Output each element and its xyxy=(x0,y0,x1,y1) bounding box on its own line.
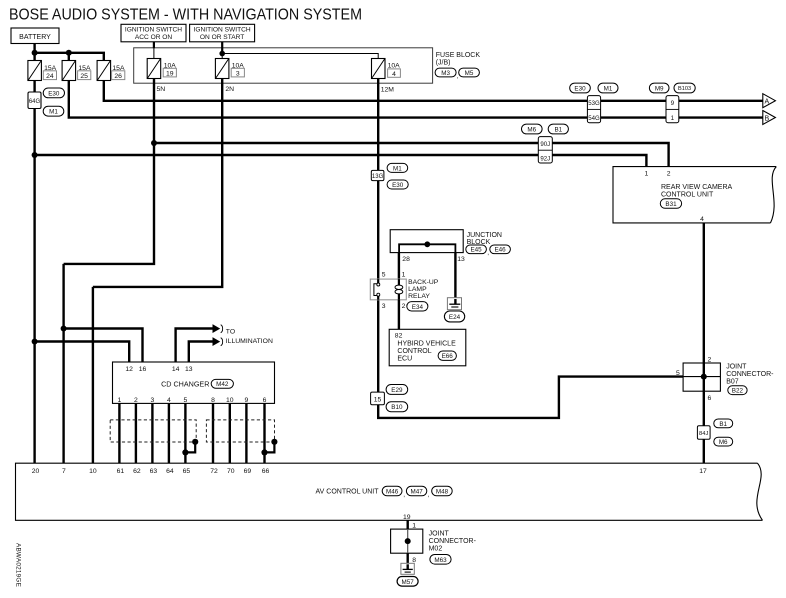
pin 2 B07 xyxy=(708,357,712,364)
wire feed to fuse4 xyxy=(222,54,378,59)
av control unit box xyxy=(16,463,763,520)
svg-text:CONTROL: CONTROL xyxy=(397,348,431,355)
svg-text:2N: 2N xyxy=(225,86,234,93)
svg-text:25: 25 xyxy=(80,73,88,80)
label E45 oval xyxy=(466,245,490,257)
shield drain right xyxy=(261,439,277,456)
connector label 5N xyxy=(157,86,166,93)
svg-text:63: 63 xyxy=(150,468,158,475)
pin 19 av unit xyxy=(403,514,411,521)
shield box left xyxy=(110,420,196,442)
svg-text:53G: 53G xyxy=(588,100,600,107)
wire 2N down xyxy=(93,79,222,464)
svg-text:13: 13 xyxy=(457,256,465,263)
svg-text:12M: 12M xyxy=(381,87,395,94)
label M1 oval left xyxy=(43,106,64,116)
svg-text:69: 69 xyxy=(244,468,252,475)
svg-text:5N: 5N xyxy=(157,86,166,93)
node branch pin16 xyxy=(61,326,67,332)
svg-text:JOINT: JOINT xyxy=(429,531,450,538)
pin 8 M02 xyxy=(412,557,416,564)
svg-text:62: 62 xyxy=(133,468,141,475)
svg-text:AV CONTROL UNIT: AV CONTROL UNIT xyxy=(316,489,380,496)
svg-text:5: 5 xyxy=(382,272,386,279)
svg-text:M63: M63 xyxy=(434,557,447,564)
fuse 26 15A xyxy=(97,61,125,81)
svg-text:,: , xyxy=(428,491,430,498)
svg-text:B10: B10 xyxy=(391,404,403,411)
joint connector M02 xyxy=(391,529,477,553)
svg-text:2: 2 xyxy=(708,357,712,364)
svg-text:LAMP: LAMP xyxy=(408,286,427,293)
svg-text:12: 12 xyxy=(125,366,133,373)
svg-text:16: 16 xyxy=(139,366,147,373)
svg-text:3: 3 xyxy=(151,397,155,404)
label B1 oval 84J xyxy=(714,419,733,428)
pin 1 M02 xyxy=(412,522,416,529)
junction block box xyxy=(390,230,502,253)
svg-text:B07: B07 xyxy=(726,379,739,386)
svg-text:CONTROL UNIT: CONTROL UNIT xyxy=(661,192,714,199)
svg-text:2: 2 xyxy=(667,171,671,178)
label M1 oval 53G xyxy=(598,83,618,93)
svg-text:28: 28 xyxy=(402,256,410,263)
svg-text:6: 6 xyxy=(263,397,267,404)
svg-text:10: 10 xyxy=(89,468,97,475)
svg-text:B1: B1 xyxy=(554,126,562,133)
label E46 oval xyxy=(490,245,511,254)
connector 9 1 xyxy=(666,96,679,123)
wire CD pin13 to illumination xyxy=(189,342,214,363)
svg-text:M48: M48 xyxy=(436,489,449,496)
label M1 oval 13G xyxy=(387,163,408,172)
svg-text:92J: 92J xyxy=(540,156,550,163)
wires cd changer to av unit xyxy=(119,403,264,463)
pin 14 cd xyxy=(172,366,180,373)
fuse block label xyxy=(435,52,480,80)
svg-text:REAR VIEW CAMERA: REAR VIEW CAMERA xyxy=(661,184,733,191)
arrow illumination 1 xyxy=(213,325,220,332)
av unit pin labels xyxy=(32,468,707,475)
pin 1 camera xyxy=(645,171,649,178)
svg-text:M57: M57 xyxy=(401,579,414,586)
connector label 2N xyxy=(225,86,234,93)
svg-text:E46: E46 xyxy=(494,247,506,254)
svg-text:M1: M1 xyxy=(49,109,58,116)
svg-text:4: 4 xyxy=(700,216,704,223)
fuse block J/B outline xyxy=(134,48,433,83)
svg-text:54G: 54G xyxy=(588,115,600,122)
title xyxy=(9,7,362,24)
label B22 oval xyxy=(728,386,747,395)
pin 28 junction block xyxy=(402,256,410,263)
svg-text:HYBIRD VEHICLE: HYBIRD VEHICLE xyxy=(397,341,456,348)
wire fuse25 stub xyxy=(68,53,70,61)
wire battery feed xyxy=(33,44,35,464)
svg-text:1: 1 xyxy=(118,397,122,404)
joint connector B07 xyxy=(683,363,774,391)
svg-text:1: 1 xyxy=(412,522,416,529)
svg-text:E24: E24 xyxy=(449,314,461,321)
fuse 25 15A xyxy=(62,61,91,81)
svg-text:2: 2 xyxy=(402,303,406,310)
svg-text:19: 19 xyxy=(403,514,411,521)
wire battery bus xyxy=(35,53,104,61)
svg-text:E30: E30 xyxy=(574,85,586,92)
label E30 oval 53G xyxy=(570,83,591,93)
svg-text:26: 26 xyxy=(114,73,122,80)
pin 2 relay xyxy=(402,303,406,310)
svg-text:M47: M47 xyxy=(410,489,423,496)
pin 3 relay xyxy=(382,303,386,310)
connector 13G xyxy=(371,170,384,180)
wire ACC to fuse19 xyxy=(153,42,155,59)
wire relay pin3 to B07 pin5 xyxy=(378,300,683,418)
svg-text:1: 1 xyxy=(645,171,649,178)
fuse 24 15A xyxy=(28,61,57,81)
node fuse3 feed dot xyxy=(219,51,225,57)
connector 84J xyxy=(697,426,710,440)
label M63 oval xyxy=(430,555,451,565)
svg-text:1: 1 xyxy=(671,115,675,122)
node battery bus dot2 xyxy=(66,50,72,56)
svg-text:13: 13 xyxy=(185,366,193,373)
svg-text:M6: M6 xyxy=(719,439,728,446)
svg-text:RELAY: RELAY xyxy=(408,293,430,300)
wire M02 to ground M57 xyxy=(407,553,409,569)
wire fuse26 to arrow A xyxy=(104,81,763,101)
svg-text:BACK-UP: BACK-UP xyxy=(408,279,439,286)
svg-text:8: 8 xyxy=(211,397,215,404)
cd changer box xyxy=(113,362,275,403)
svg-text:ILLUMINATION: ILLUMINATION xyxy=(226,338,273,345)
connector 15 xyxy=(371,392,385,405)
svg-text:B: B xyxy=(765,115,770,122)
pin 16 cd xyxy=(139,366,147,373)
label E30 oval 13G xyxy=(387,180,408,189)
pin 2 camera xyxy=(667,171,671,178)
svg-text:A: A xyxy=(765,99,770,106)
cd bottom pin labels xyxy=(118,397,267,404)
svg-text:E29: E29 xyxy=(391,387,403,394)
svg-text:JUNCTION: JUNCTION xyxy=(467,232,502,239)
ignition switch START box xyxy=(190,24,255,42)
pin 13 junction block xyxy=(457,256,465,263)
svg-text:24: 24 xyxy=(46,73,54,80)
wire CD pin14 to illumination xyxy=(176,329,214,363)
svg-text:ECU: ECU xyxy=(397,356,412,363)
svg-text:M42: M42 xyxy=(216,381,229,388)
svg-text:ACC OR ON: ACC OR ON xyxy=(135,34,173,41)
node battery 92J junction xyxy=(32,152,38,158)
connector label 12M xyxy=(381,87,395,94)
pin 1 relay xyxy=(402,272,406,279)
label M6 oval 90J xyxy=(522,124,543,134)
svg-text:13G: 13G xyxy=(372,174,384,180)
wire JB pin13 to ground E24 xyxy=(454,253,456,304)
arrow A xyxy=(763,94,776,108)
svg-text:B1: B1 xyxy=(719,421,727,428)
svg-text:17: 17 xyxy=(699,468,707,475)
svg-text:IGNITION SWITCH: IGNITION SWITCH xyxy=(125,27,182,34)
svg-text:E30: E30 xyxy=(392,182,404,189)
svg-text:2: 2 xyxy=(134,397,138,404)
svg-text:4: 4 xyxy=(167,397,171,404)
svg-text:3: 3 xyxy=(382,303,386,310)
svg-text:90J: 90J xyxy=(540,141,550,148)
wire camera pin4 to AV pin17 xyxy=(703,223,705,463)
svg-text:66: 66 xyxy=(262,468,270,475)
svg-text:M9: M9 xyxy=(655,85,664,92)
pin 13 cd xyxy=(185,366,193,373)
fuse 4 10A xyxy=(372,59,401,79)
svg-text:B22: B22 xyxy=(732,388,744,395)
label B1 oval 90J xyxy=(548,124,568,134)
node battery bus dot1 xyxy=(32,50,38,56)
svg-text:M5: M5 xyxy=(465,70,474,77)
svg-text:,: , xyxy=(487,250,489,257)
svg-text:E30: E30 xyxy=(48,90,60,97)
svg-text:19: 19 xyxy=(166,70,174,77)
label E34 oval xyxy=(407,302,428,311)
svg-text:BOSE AUDIO SYSTEM - WITH NAVIG: BOSE AUDIO SYSTEM - WITH NAVIGATION SYST… xyxy=(9,7,362,24)
svg-text:JOINT: JOINT xyxy=(726,364,747,371)
svg-text:15: 15 xyxy=(374,397,382,404)
label B103 oval xyxy=(674,83,695,93)
svg-text:20: 20 xyxy=(32,468,40,475)
svg-text:7: 7 xyxy=(62,468,66,475)
svg-text:61: 61 xyxy=(117,468,125,475)
shield drain left xyxy=(182,439,198,456)
wire fuse25 to arrow B xyxy=(69,81,763,118)
shield box right xyxy=(206,420,274,442)
fuse 19 10A xyxy=(147,59,176,79)
svg-text:CONNECTOR-: CONNECTOR- xyxy=(429,538,477,545)
pin 12 cd xyxy=(125,366,133,373)
svg-text:E45: E45 xyxy=(470,247,482,254)
label M6 oval 84J xyxy=(714,437,733,446)
pin 5 relay xyxy=(382,272,386,279)
junction block bus xyxy=(399,241,455,252)
svg-text:FUSE BLOCK: FUSE BLOCK xyxy=(436,52,481,59)
svg-text:64: 64 xyxy=(166,468,174,475)
connector 64G xyxy=(28,92,41,109)
svg-text:82: 82 xyxy=(395,333,403,340)
svg-text:CD CHANGER: CD CHANGER xyxy=(161,379,209,388)
svg-text:M46: M46 xyxy=(386,489,399,496)
label B10 oval xyxy=(386,402,408,412)
wire relay pin2 to hybrid ecu xyxy=(398,300,400,330)
svg-text:70: 70 xyxy=(227,468,235,475)
node 5N junction xyxy=(151,140,157,146)
svg-text:1: 1 xyxy=(402,272,406,279)
wire branch to CD pin12 xyxy=(35,342,130,363)
wire branch to CD pin16 xyxy=(64,329,143,363)
svg-text:TO: TO xyxy=(226,328,235,335)
svg-text:M3: M3 xyxy=(441,70,450,77)
svg-text:4: 4 xyxy=(392,71,396,78)
svg-text:65: 65 xyxy=(183,468,191,475)
svg-text:9: 9 xyxy=(245,397,249,404)
wire 5N down xyxy=(64,79,154,464)
svg-text:M1: M1 xyxy=(604,85,613,92)
ground M57 xyxy=(397,563,418,586)
arrow B xyxy=(763,111,776,125)
label M9 oval xyxy=(649,83,669,93)
svg-text:6: 6 xyxy=(708,395,712,402)
svg-text:84J: 84J xyxy=(699,431,708,437)
svg-text:(J/B): (J/B) xyxy=(436,60,451,67)
svg-text:10A: 10A xyxy=(388,62,401,69)
pin 5 B07 xyxy=(676,370,680,377)
hybrid vehicle control ecu box xyxy=(389,329,466,366)
wire 90J line to camera pin2 xyxy=(154,143,669,167)
pin 6 B07 xyxy=(708,395,712,402)
wire START to fuse3 xyxy=(221,42,223,59)
arrow illumination 2 xyxy=(213,338,220,345)
label E30 oval left xyxy=(43,88,64,98)
to illumination label xyxy=(221,325,273,346)
connector 53G 54G xyxy=(587,96,600,123)
svg-text:CONNECTOR-: CONNECTOR- xyxy=(726,371,774,378)
wire JB pin28 to relay pin1 xyxy=(398,253,400,280)
svg-text:M1: M1 xyxy=(393,165,402,172)
svg-text:M6: M6 xyxy=(527,126,536,133)
pin 4 camera xyxy=(700,216,704,223)
node branch pin12 xyxy=(32,339,38,345)
diagram code xyxy=(15,543,22,587)
svg-text:64G: 64G xyxy=(29,99,41,105)
label E29 oval xyxy=(386,385,408,395)
wire av pin19 to M02 xyxy=(407,520,409,529)
svg-text:10: 10 xyxy=(226,397,234,404)
ignition switch ACC box xyxy=(121,24,186,42)
svg-text:B31: B31 xyxy=(665,201,677,208)
wire 92J line to camera pin1 xyxy=(35,155,647,167)
svg-text:IGNITION SWITCH: IGNITION SWITCH xyxy=(194,27,251,34)
svg-text:3: 3 xyxy=(236,70,240,77)
svg-text:M02: M02 xyxy=(429,546,443,553)
svg-text:,: , xyxy=(403,491,405,498)
svg-text:5: 5 xyxy=(676,370,680,377)
rear view camera control unit box xyxy=(613,167,776,223)
connector 90J 92J xyxy=(538,137,552,163)
svg-text:E34: E34 xyxy=(412,304,424,311)
svg-text:ABWA0219GE: ABWA0219GE xyxy=(15,543,22,587)
wire 12M to relay pin5 xyxy=(377,79,379,280)
svg-text:B103: B103 xyxy=(678,86,691,92)
svg-text:BATTERY: BATTERY xyxy=(19,34,51,41)
svg-text:5: 5 xyxy=(184,397,188,404)
fuse 3 10A xyxy=(215,59,244,79)
ground E24 xyxy=(444,298,464,322)
battery box xyxy=(11,28,59,44)
back-up lamp relay xyxy=(370,279,438,300)
svg-text:ON OR START: ON OR START xyxy=(200,34,244,41)
svg-text:E66: E66 xyxy=(442,353,454,360)
svg-text:9: 9 xyxy=(671,100,675,107)
svg-text:72: 72 xyxy=(210,468,218,475)
svg-text:14: 14 xyxy=(172,366,180,373)
